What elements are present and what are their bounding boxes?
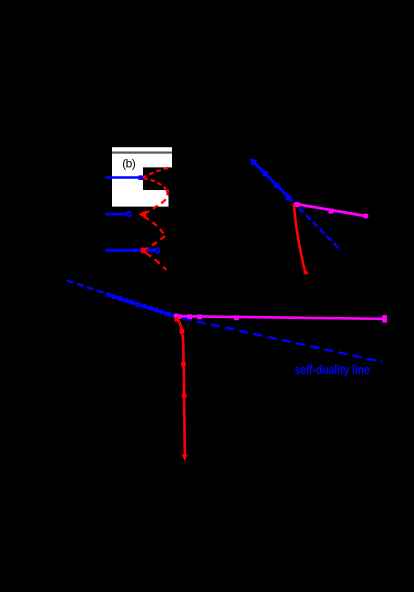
central magenta line with markers [174, 314, 387, 323]
svg-text:self-duality line: self-duality line [295, 362, 370, 377]
inset red dashed RG flow E (bend back to line 3) [147, 236, 166, 249]
inset red dashed RG flow B (line-1 tip to lower-right) [143, 178, 166, 189]
inset blue fixed line 1 [105, 175, 143, 180]
upper-right blue dashed line [299, 208, 341, 251]
self-duality dashed blue line [67, 281, 180, 318]
inset red square marker on line 3 [141, 248, 147, 254]
svg-text:(b): (b) [122, 156, 135, 170]
inset (b) gray separator line [112, 152, 172, 154]
inset blue fixed line 3 [105, 248, 159, 252]
self-duality dashed blue line (right segment) [183, 318, 383, 362]
inset (b) white top strip [112, 147, 172, 151]
inset blue fixed line 2 [105, 212, 131, 216]
inset red flow arrowhead at line 2 [138, 211, 146, 219]
central red first-order line with markers and arrow [175, 317, 188, 461]
upper-right red first-order line [294, 204, 308, 274]
inset (b) white panel (notched) [112, 154, 172, 207]
inset red dashed RG flow D (line 2 down-right) [144, 217, 165, 237]
inset red dashed RG flow C (bend down-left toward line 2) [145, 190, 168, 214]
inset red dashed RG flow F (line 3 down-right tail) [146, 253, 167, 270]
upper-right magenta line with markers [294, 202, 369, 219]
upper-right blue transition line with square markers [250, 158, 293, 201]
central blue beaded transition line [106, 293, 174, 317]
inset red dashed RG flow A (upper-right to line-1 tip) [143, 168, 169, 178]
